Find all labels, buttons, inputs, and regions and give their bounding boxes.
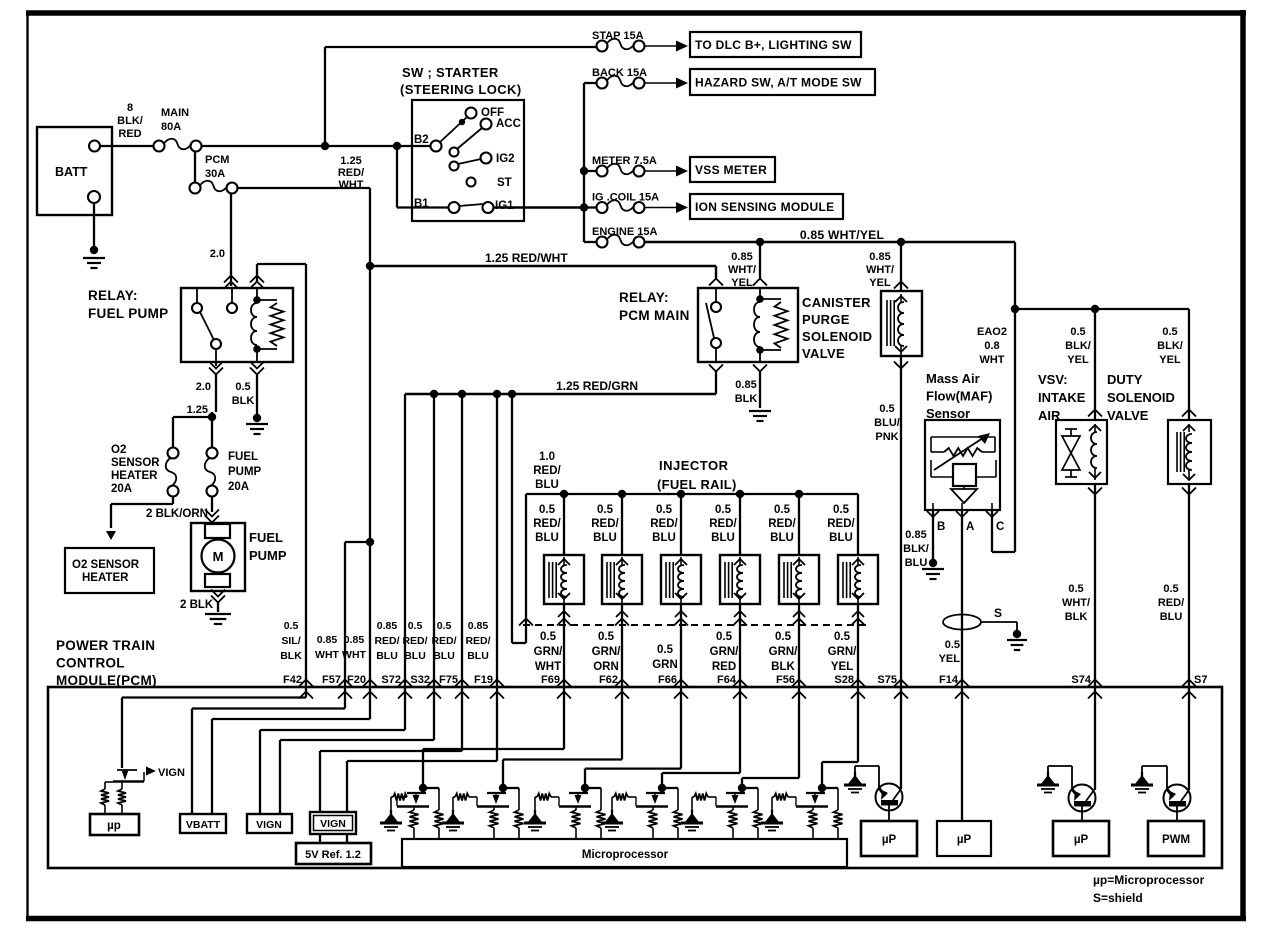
svg-text:SIL/: SIL/ bbox=[281, 635, 300, 647]
shield ellipse bbox=[943, 615, 981, 630]
svg-text:0.5: 0.5 bbox=[879, 403, 894, 415]
svg-text:WHT: WHT bbox=[979, 354, 1004, 366]
wire 1095 to transistor Q9 bbox=[1094, 687, 1096, 790]
svg-text:0.85: 0.85 bbox=[344, 634, 365, 646]
svg-text:0.5: 0.5 bbox=[656, 504, 673, 516]
svg-text:RED/: RED/ bbox=[465, 635, 490, 647]
relay K2 coil feed bbox=[759, 242, 761, 278]
svg-text:0.85: 0.85 bbox=[905, 529, 926, 541]
label O2 SENSOR HEATER 20A bbox=[111, 444, 160, 495]
wire F62 stair to driver 2 bbox=[503, 687, 622, 785]
wire fuel pump fuse to pump bbox=[205, 496, 219, 523]
svg-text:VIGN: VIGN bbox=[256, 819, 282, 831]
svg-text:SW ; STARTER: SW ; STARTER bbox=[402, 65, 499, 80]
wire S28 stair to driver 6 bbox=[822, 687, 858, 785]
wire bus top to BACK fuse bbox=[584, 82, 597, 84]
injector 2 coil bbox=[607, 557, 628, 604]
junction node red/wht bbox=[366, 262, 374, 270]
svg-text:0.5: 0.5 bbox=[1070, 326, 1085, 338]
svg-text:F62: F62 bbox=[599, 674, 618, 686]
svg-text:(FUEL RAIL): (FUEL RAIL) bbox=[657, 477, 737, 492]
svg-text:20A: 20A bbox=[111, 483, 132, 495]
PCM driver ground 4 bbox=[601, 797, 623, 831]
injector 4 feed wire bbox=[739, 494, 741, 555]
label 0.5 RED/BLU injector 5 bbox=[768, 504, 796, 544]
svg-text:PNK: PNK bbox=[875, 431, 898, 443]
box ION SENSING MODULE bbox=[690, 194, 843, 219]
label 2 BLK/ORN bbox=[146, 508, 208, 520]
label 0.5 RED/BLU duty bbox=[1158, 583, 1184, 623]
svg-text:0.5: 0.5 bbox=[945, 639, 960, 651]
svg-text:YEL: YEL bbox=[1159, 354, 1181, 366]
svg-text:INTAKE: INTAKE bbox=[1038, 390, 1086, 405]
VSV valve symbol bbox=[1062, 429, 1080, 477]
svg-text:RED/: RED/ bbox=[709, 518, 737, 530]
wire F64 stair to driver 4 bbox=[662, 687, 740, 785]
svg-text:PURGE: PURGE bbox=[802, 312, 850, 327]
wire relay coil to ground bbox=[246, 374, 268, 434]
svg-text:GRN/: GRN/ bbox=[710, 646, 740, 658]
wire DUTY feed bbox=[1182, 309, 1196, 420]
svg-text:RED/: RED/ bbox=[431, 635, 456, 647]
ignition switch box bbox=[412, 100, 524, 221]
transistor Q9 bbox=[1069, 785, 1096, 822]
junction node VSV feed bbox=[1091, 305, 1099, 313]
svg-text:BLU: BLU bbox=[905, 557, 928, 569]
MAF sensor box bbox=[925, 420, 1000, 510]
svg-text:BLK/: BLK/ bbox=[1157, 340, 1183, 352]
injector 6 output wire bbox=[851, 604, 865, 687]
svg-text:IG1: IG1 bbox=[495, 200, 514, 212]
battery BATT bbox=[37, 127, 112, 215]
MAF variable resistor bbox=[931, 433, 995, 470]
wire F75 column bbox=[461, 394, 463, 687]
box TO DLC B+, LIGHTING SW bbox=[690, 32, 861, 57]
injector 5 box bbox=[779, 555, 819, 604]
label 2.0 fuel pump bbox=[196, 381, 211, 393]
fuse O2 SENSOR HEATER 20A bbox=[166, 448, 179, 497]
PCM resistor pair to microprocessor bbox=[101, 782, 126, 814]
wire PCM fuse to corner bbox=[238, 188, 370, 266]
fuel pump motor M1 bbox=[202, 524, 235, 587]
label 0.85 WHT F20 bbox=[342, 634, 366, 661]
svg-text:PUMP: PUMP bbox=[228, 466, 262, 478]
svg-text:RED: RED bbox=[712, 661, 736, 673]
PCM ground Q9 bbox=[1037, 772, 1059, 793]
svg-text:VSS METER: VSS METER bbox=[695, 163, 767, 177]
svg-text:BLU: BLU bbox=[467, 650, 489, 662]
svg-text:RELAY:: RELAY: bbox=[88, 288, 138, 303]
label RELAY PCM MAIN bbox=[619, 290, 690, 323]
injector 4 output wire bbox=[733, 604, 747, 687]
svg-text:GRN/: GRN/ bbox=[769, 646, 799, 658]
label RELAY FUEL PUMP bbox=[88, 288, 168, 321]
junction node fuel pump branch bbox=[208, 413, 216, 421]
svg-text:GRN/: GRN/ bbox=[592, 646, 622, 658]
wire EAO2 0.8 WHT to MAF pin C bbox=[992, 309, 1015, 552]
wire S32 column bbox=[433, 394, 435, 687]
svg-text:WHT/: WHT/ bbox=[728, 264, 756, 276]
wire 1.25 RED/WHT horizontal to PCM MAIN relay bbox=[370, 266, 716, 278]
junction node F19 bbox=[493, 390, 501, 398]
wire injector supply rail bbox=[526, 493, 858, 495]
junction node PCM-main-relay coil feed bbox=[756, 238, 764, 246]
svg-text:RED/: RED/ bbox=[768, 518, 796, 530]
svg-text:80A: 80A bbox=[161, 121, 181, 133]
svg-text:0.5: 0.5 bbox=[1163, 583, 1178, 595]
svg-text:BLU: BLU bbox=[433, 650, 455, 662]
wire F20 stair to VBATT bbox=[212, 687, 370, 814]
svg-text:30A: 30A bbox=[205, 168, 225, 180]
svg-text:F14: F14 bbox=[939, 674, 959, 686]
svg-text:0.85: 0.85 bbox=[317, 634, 338, 646]
svg-text:BLU: BLU bbox=[770, 532, 794, 544]
svg-text:µP: µP bbox=[957, 834, 972, 846]
PCM driver ground 2 bbox=[442, 797, 464, 831]
svg-text:S=shield: S=shield bbox=[1093, 891, 1143, 905]
wire F66 stair to driver 3 bbox=[585, 687, 681, 785]
svg-text:F56: F56 bbox=[776, 674, 795, 686]
svg-text:2 BLK: 2 BLK bbox=[180, 599, 214, 611]
fuse FUEL PUMP 20A bbox=[205, 448, 218, 497]
injector 3 output wire bbox=[674, 604, 688, 687]
battery terminals bbox=[88, 141, 100, 204]
label 0.5 RED/BLU injector 6 bbox=[827, 504, 855, 544]
svg-text:HEATER: HEATER bbox=[82, 572, 129, 584]
label 8 BLK/RED bbox=[117, 102, 143, 140]
junction node F75 bbox=[458, 390, 466, 398]
svg-text:BLK: BLK bbox=[280, 650, 302, 662]
PCM driver ground 1 bbox=[380, 797, 402, 831]
svg-text:O2 SENSOR: O2 SENSOR bbox=[72, 559, 140, 571]
wire bus to METER fuse bbox=[584, 170, 597, 172]
injector 1 coil bbox=[549, 557, 570, 604]
svg-text:2.0: 2.0 bbox=[196, 381, 211, 393]
svg-text:MAIN: MAIN bbox=[161, 107, 189, 119]
label 0.5 BLK/YEL duty bbox=[1157, 326, 1183, 366]
wire 1.0 RED/BLU injector feed bbox=[512, 394, 533, 643]
svg-text:RED/: RED/ bbox=[338, 167, 364, 179]
box 5V Ref 1.2 bbox=[296, 843, 371, 864]
injector 1 output wire bbox=[557, 604, 571, 687]
PCM driver gate resistor R4 bbox=[537, 794, 559, 807]
wire branch to B1 bbox=[397, 146, 448, 208]
fuse MAIN 80A bbox=[154, 107, 202, 152]
svg-text:PCM MAIN: PCM MAIN bbox=[619, 308, 690, 323]
svg-text:BLU: BLU bbox=[829, 532, 853, 544]
wire PCM fuse down to fuel pump relay bbox=[230, 193, 232, 286]
ground below battery bbox=[83, 203, 105, 268]
PCM driver mosfet Q2 bbox=[397, 784, 444, 840]
relay K2 coil parallel resistor bbox=[760, 299, 788, 350]
label 0.5 GRN/ WHT bbox=[534, 631, 564, 673]
label 0.5 RED/BLU F75 bbox=[431, 620, 456, 662]
label 1.25 RED/WHT vertical bbox=[338, 155, 364, 191]
wire F69 stair to driver 1 bbox=[423, 687, 564, 785]
svg-text:0.85: 0.85 bbox=[731, 251, 752, 263]
wire bus to ENGINE fuse bbox=[584, 241, 597, 243]
svg-text:GRN: GRN bbox=[652, 659, 678, 671]
fuse BACK 15A bbox=[592, 67, 688, 89]
injector 1 box bbox=[544, 555, 584, 604]
svg-text:WHT/: WHT/ bbox=[1062, 597, 1090, 609]
label 0.5 GRN/ YEL bbox=[828, 631, 858, 673]
junction node injector feed bbox=[508, 390, 516, 398]
label 0.85 WHT/YEL relay bbox=[728, 251, 756, 289]
svg-text:0.5: 0.5 bbox=[597, 504, 614, 516]
PCM driver mosfet Q5 bbox=[636, 784, 683, 840]
box VBATT bbox=[180, 814, 226, 833]
svg-text:0.5: 0.5 bbox=[775, 631, 792, 643]
relay K1 entry chevrons bbox=[224, 276, 264, 289]
MAF pins B A C bbox=[927, 503, 1004, 533]
relay K2 switch bbox=[706, 288, 721, 362]
switch arm to IG2 bbox=[450, 159, 482, 171]
wire F75 stair to VIGN2 bbox=[320, 687, 462, 812]
svg-text:0.8: 0.8 bbox=[984, 340, 999, 352]
relay K2 PCM main box bbox=[698, 288, 798, 362]
svg-text:RELAY:: RELAY: bbox=[619, 290, 669, 305]
junction node canister purge feed bbox=[897, 238, 905, 246]
label 0.5 RED/BLU S32 bbox=[402, 620, 427, 662]
wire VSV feed bbox=[1088, 309, 1102, 420]
svg-text:FUEL: FUEL bbox=[249, 530, 283, 545]
svg-text:WHT: WHT bbox=[342, 649, 366, 661]
svg-text:BLU: BLU bbox=[711, 532, 735, 544]
svg-text:Sensor: Sensor bbox=[926, 406, 970, 421]
svg-text:ION SENSING MODULE: ION SENSING MODULE bbox=[695, 200, 834, 214]
label 0.5 GRN bbox=[652, 644, 678, 671]
fuse IG .COIL 15A bbox=[592, 192, 688, 214]
relay K2 coil to ground 0.85 BLK bbox=[735, 371, 771, 421]
label 0.5 RED/BLU injector 4 bbox=[709, 504, 737, 544]
PCM driver mosfet Q3 bbox=[477, 784, 524, 840]
svg-text:BATT: BATT bbox=[55, 165, 88, 179]
label 1.25 RED/GRN bbox=[556, 379, 638, 393]
svg-text:VALVE: VALVE bbox=[1107, 408, 1149, 423]
svg-text:0.5: 0.5 bbox=[539, 504, 556, 516]
svg-text:0.5: 0.5 bbox=[235, 381, 250, 393]
junction node injector rail x=681 bbox=[677, 490, 685, 498]
svg-text:BLK: BLK bbox=[232, 395, 255, 407]
wire to fuel pump fuse bbox=[211, 412, 213, 448]
fuse METER 7.5A bbox=[592, 155, 688, 177]
wire F14 to µP bbox=[961, 687, 963, 821]
junction node F57 branch bbox=[366, 538, 374, 546]
PCM driver gate resistor R3 bbox=[455, 794, 477, 807]
svg-text:BLK: BLK bbox=[1065, 611, 1088, 623]
PCM module box bbox=[48, 687, 1222, 868]
PCM driver ground 5 bbox=[681, 797, 703, 831]
label 0.5 BLK/YEL vsv bbox=[1065, 326, 1091, 366]
switch terminal B2 bbox=[414, 134, 442, 152]
relay K1 coil bbox=[251, 288, 261, 362]
svg-text:CANISTER: CANISTER bbox=[802, 295, 871, 310]
svg-text:0.5: 0.5 bbox=[834, 631, 851, 643]
svg-text:RED/: RED/ bbox=[591, 518, 619, 530]
wire S72 stair to VIGN bbox=[260, 687, 405, 814]
label 0.85 WHT/YEL bbox=[800, 228, 885, 242]
label SW STARTER bbox=[400, 65, 522, 97]
svg-text:1.25 RED/GRN: 1.25 RED/GRN bbox=[556, 379, 638, 393]
svg-text:0.85: 0.85 bbox=[735, 379, 756, 391]
VSV coil bbox=[1089, 424, 1101, 480]
svg-text:VIGN: VIGN bbox=[320, 818, 346, 830]
svg-text:PWM: PWM bbox=[1162, 834, 1190, 846]
label 0.85 WHT F57 bbox=[315, 634, 339, 661]
switch contact OFF bbox=[466, 107, 505, 119]
wire S32 stair to VIGN bbox=[280, 687, 434, 814]
svg-text:B: B bbox=[937, 521, 945, 533]
svg-text:TO DLC B+, LIGHTING SW: TO DLC B+, LIGHTING SW bbox=[695, 38, 852, 52]
fuel pump ground wire bbox=[205, 590, 231, 625]
svg-text:0.5: 0.5 bbox=[540, 631, 557, 643]
injector 6 box bbox=[838, 555, 878, 604]
svg-text:Mass Air: Mass Air bbox=[926, 371, 980, 386]
relay K1 switch bbox=[192, 288, 237, 349]
svg-text:BLU: BLU bbox=[593, 532, 617, 544]
wire MAF pin A to F14 with shield bbox=[961, 510, 963, 687]
switch contact IG1 bbox=[483, 200, 515, 213]
svg-text:F75: F75 bbox=[439, 674, 458, 686]
injector 5 output wire bbox=[792, 604, 806, 687]
injector 2 feed wire bbox=[621, 494, 623, 555]
label FUEL PUMP 20A bbox=[228, 451, 262, 493]
injector shield dashed boundary bbox=[523, 624, 871, 626]
svg-text:S75: S75 bbox=[877, 674, 897, 686]
wire canister purge to S75 bbox=[894, 356, 908, 687]
injector 6 feed wire bbox=[857, 494, 859, 555]
svg-text:BLK/: BLK/ bbox=[1065, 340, 1091, 352]
svg-text:0.5: 0.5 bbox=[774, 504, 791, 516]
injector 5 coil bbox=[784, 557, 805, 604]
relay K1 exit chevrons bbox=[209, 349, 264, 412]
canister purge solenoid valve bbox=[881, 291, 922, 356]
label 0.5 WHT/BLK bbox=[1062, 583, 1090, 623]
wire Q8 ground loop bbox=[855, 766, 879, 788]
label 2.0 relay feed bbox=[210, 248, 225, 260]
transistor Q8 bbox=[876, 784, 903, 821]
svg-text:BLU/: BLU/ bbox=[874, 417, 900, 429]
svg-text:IG2: IG2 bbox=[496, 153, 515, 165]
svg-text:µp: µp bbox=[107, 820, 121, 832]
wire Q9 ground loop bbox=[1048, 766, 1072, 789]
svg-text:BLU: BLU bbox=[535, 532, 559, 544]
box µP driver 1 bbox=[861, 821, 917, 856]
junction node IG COIL feed bbox=[580, 203, 588, 211]
svg-text:µP: µP bbox=[1074, 834, 1089, 846]
box Microprocessor bbox=[402, 839, 847, 867]
svg-text:ACC: ACC bbox=[496, 118, 521, 130]
box PWM driver bbox=[1148, 821, 1204, 856]
svg-text:YEL: YEL bbox=[1067, 354, 1089, 366]
svg-text:F42: F42 bbox=[283, 674, 302, 686]
svg-text:1.25 RED/WHT: 1.25 RED/WHT bbox=[485, 251, 568, 265]
svg-text:5V Ref. 1.2: 5V Ref. 1.2 bbox=[305, 849, 361, 861]
svg-text:FUEL: FUEL bbox=[228, 451, 258, 463]
svg-text:F19: F19 bbox=[474, 674, 493, 686]
label EAO2 0.8 WHT bbox=[977, 326, 1007, 366]
wire F19 column bbox=[496, 394, 498, 687]
svg-text:F69: F69 bbox=[541, 674, 560, 686]
svg-text:RED/: RED/ bbox=[827, 518, 855, 530]
junction node EAO2 bbox=[1011, 305, 1019, 313]
legend microprocessor shield bbox=[1093, 873, 1205, 905]
switch terminal B1 bbox=[414, 198, 460, 213]
svg-text:Flow(MAF): Flow(MAF) bbox=[926, 389, 992, 404]
wire MAIN to PCM fuse bbox=[194, 151, 196, 183]
switch arm ACC to lower contact bbox=[450, 128, 483, 157]
wire MAIN fuse to ignition switch B2 bbox=[201, 145, 431, 147]
svg-text:BLU: BLU bbox=[404, 650, 426, 662]
label POWER TRAIN CONTROL MODULE(PCM) bbox=[56, 638, 157, 688]
svg-text:20A: 20A bbox=[228, 481, 249, 493]
svg-text:µp=Microprocessor: µp=Microprocessor bbox=[1093, 873, 1205, 887]
box µP driver 2 bbox=[937, 821, 991, 856]
label 0.5 YEL bbox=[939, 639, 961, 665]
label 0.5 GRN/ RED bbox=[710, 631, 740, 673]
switch contact ACC bbox=[481, 118, 521, 130]
svg-text:RED: RED bbox=[118, 128, 141, 140]
junction node METER feed bbox=[580, 167, 588, 175]
svg-text:PCM: PCM bbox=[205, 154, 229, 166]
svg-text:Microprocessor: Microprocessor bbox=[582, 849, 669, 861]
label 0.5 GRN/ BLK bbox=[769, 631, 799, 673]
svg-text:S74: S74 bbox=[1071, 674, 1091, 686]
svg-text:YEL: YEL bbox=[831, 661, 853, 673]
svg-text:YEL: YEL bbox=[939, 653, 961, 665]
svg-text:S7: S7 bbox=[1194, 674, 1207, 686]
PCM driver mosfet Q6 bbox=[716, 784, 763, 840]
svg-text:YEL: YEL bbox=[731, 277, 753, 289]
box VSS METER bbox=[690, 157, 775, 182]
svg-text:YEL: YEL bbox=[869, 277, 891, 289]
label S shield bbox=[994, 606, 1002, 620]
PCM ground Q8 bbox=[844, 772, 866, 793]
injector 1 feed wire bbox=[563, 494, 565, 555]
PCM connector entry chevrons bbox=[299, 680, 1196, 699]
relay K1 fuel pump box bbox=[181, 288, 293, 362]
svg-text:0.5: 0.5 bbox=[437, 620, 452, 632]
svg-text:2.0: 2.0 bbox=[210, 248, 225, 260]
box µP driver 3 bbox=[1053, 821, 1109, 856]
wire coil feed loop to F42 bbox=[257, 264, 306, 687]
transistor Q10 bbox=[1164, 785, 1191, 822]
svg-text:0.5: 0.5 bbox=[657, 644, 674, 656]
svg-text:1.25: 1.25 bbox=[187, 404, 208, 416]
wire branch to F57 bbox=[345, 542, 370, 687]
switch arm B1-IG1 bbox=[459, 204, 483, 206]
wire O2 fuse to O2 sensor heater box bbox=[106, 496, 173, 540]
svg-text:S: S bbox=[994, 606, 1002, 620]
svg-text:HEATER: HEATER bbox=[111, 470, 158, 482]
PCM connector pin labels bbox=[283, 674, 1207, 686]
injector 4 box bbox=[720, 555, 760, 604]
svg-text:0.5: 0.5 bbox=[1068, 583, 1083, 595]
PCM ground Q10 bbox=[1131, 772, 1153, 793]
label 0.5 RED/BLU injector 1 bbox=[533, 504, 561, 544]
label 0.5 BLK relay ground bbox=[232, 381, 255, 407]
svg-text:8: 8 bbox=[127, 102, 133, 114]
junction node injector rail x=564 bbox=[560, 490, 568, 498]
svg-text:C: C bbox=[996, 521, 1004, 533]
wire DUTY to S7 bbox=[1182, 484, 1196, 687]
svg-text:SOLENOID: SOLENOID bbox=[802, 329, 872, 344]
junction node S32 bbox=[430, 390, 438, 398]
label 0.85 WHT/YEL canister bbox=[866, 251, 894, 289]
wire red/wht down to F20/F57 bbox=[369, 266, 371, 687]
label INJECTOR FUEL RAIL bbox=[657, 458, 737, 492]
